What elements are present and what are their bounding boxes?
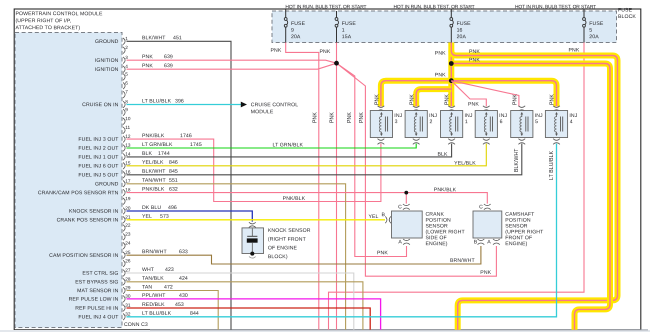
svg-text:20A: 20A xyxy=(589,34,599,40)
svg-text:13: 13 xyxy=(125,143,131,148)
svg-text:GROUND: GROUND xyxy=(95,181,119,187)
svg-text:FUSE: FUSE xyxy=(618,7,633,13)
wire pin31 RED/BLK 453 xyxy=(127,308,371,330)
svg-text:C: C xyxy=(479,204,483,210)
svg-text:INJ: INJ xyxy=(569,113,577,119)
svg-text:451: 451 xyxy=(173,35,182,41)
svg-text:396: 396 xyxy=(175,98,184,104)
wire pin4 PNK 639 xyxy=(127,63,337,69)
svg-text:FUSE: FUSE xyxy=(342,21,357,27)
svg-text:17: 17 xyxy=(125,179,131,184)
svg-text:19: 19 xyxy=(125,196,131,201)
svg-text:(UPPER RIGHT OF I/P,: (UPPER RIGHT OF I/P, xyxy=(15,18,71,24)
fuse F16 20A xyxy=(450,15,471,43)
svg-text:573: 573 xyxy=(160,214,169,220)
svg-text:11: 11 xyxy=(125,125,130,130)
svg-text:FUEL INJ 6 OUT: FUEL INJ 6 OUT xyxy=(78,163,119,169)
svg-text:8: 8 xyxy=(125,99,128,104)
svg-text:14: 14 xyxy=(125,152,131,157)
wire label pin21 YEL 573 xyxy=(142,214,169,220)
svg-text:1: 1 xyxy=(125,36,128,41)
svg-text:22: 22 xyxy=(125,223,131,228)
wire pin12 PNK/BLK 1746 to INJ3 xyxy=(127,139,381,201)
svg-text:KNOCK SENSOR IN: KNOCK SENSOR IN xyxy=(69,209,119,215)
wire crank sensor C drop xyxy=(405,193,407,204)
svg-text:1: 1 xyxy=(465,119,468,125)
fuse F9 20A xyxy=(284,15,305,43)
svg-text:18: 18 xyxy=(125,187,131,192)
wire label pin14 BLK 1744 xyxy=(142,151,170,157)
injector INJ3 xyxy=(370,106,402,145)
FUSE BLOCK label xyxy=(618,7,636,20)
feed tick fuse 16 xyxy=(450,9,452,14)
svg-text:FUSE: FUSE xyxy=(457,21,472,27)
injector INJ1 xyxy=(441,106,473,145)
svg-text:26: 26 xyxy=(125,258,131,263)
wire label pin12 PNK/BLK 1746 xyxy=(142,133,192,139)
svg-text:PNK: PNK xyxy=(377,250,388,256)
svg-text:BRN/WHT: BRN/WHT xyxy=(142,249,167,255)
svg-text:472: 472 xyxy=(164,284,173,290)
svg-text:MODULE: MODULE xyxy=(251,109,274,115)
svg-text:639: 639 xyxy=(164,63,173,69)
bottom module strip xyxy=(0,330,650,332)
wire label pin15 YEL/BLK 846 xyxy=(142,160,178,166)
fuse F1 15A xyxy=(335,11,356,43)
svg-text:16: 16 xyxy=(125,170,131,175)
svg-text:OF ENGINE: OF ENGINE xyxy=(268,245,298,251)
svg-text:YEL: YEL xyxy=(368,214,378,220)
svg-text:RED/BLK: RED/BLK xyxy=(142,302,165,308)
wire label pin27 WHT 423 xyxy=(142,267,174,273)
feed tick fuse 9 xyxy=(285,9,287,14)
svg-text:9: 9 xyxy=(291,28,294,34)
svg-text:PNK: PNK xyxy=(469,57,480,63)
camshaft position sensor xyxy=(473,204,502,245)
svg-text:PNK: PNK xyxy=(435,51,446,57)
svg-text:PNK: PNK xyxy=(374,94,380,105)
svg-text:2: 2 xyxy=(429,119,432,125)
svg-text:551: 551 xyxy=(169,178,178,184)
svg-text:POWERTRAIN CONTROL MODULE: POWERTRAIN CONTROL MODULE xyxy=(15,11,103,17)
wire fuse16 PNK vertical highlighted xyxy=(448,43,454,107)
svg-text:FUSE: FUSE xyxy=(589,21,604,27)
svg-text:BLK/WHT: BLK/WHT xyxy=(514,148,520,172)
svg-text:846: 846 xyxy=(169,160,178,166)
svg-text:20: 20 xyxy=(125,206,131,211)
cam sensor label xyxy=(505,212,544,248)
svg-text:IGNITION: IGNITION xyxy=(95,58,119,64)
svg-text:3: 3 xyxy=(125,55,128,60)
wire label pin32 LT BLU/BLK 844 xyxy=(142,311,199,317)
svg-text:2: 2 xyxy=(125,45,128,50)
svg-text:PNK/BLK: PNK/BLK xyxy=(142,133,165,139)
knock sensor xyxy=(242,222,264,258)
powertrain control module box xyxy=(15,33,122,328)
svg-text:430: 430 xyxy=(179,293,188,299)
svg-text:A: A xyxy=(487,239,491,245)
svg-text:YEL/BLK: YEL/BLK xyxy=(454,161,476,167)
svg-text:PNK/BLK: PNK/BLK xyxy=(142,187,165,193)
svg-text:PNK: PNK xyxy=(359,112,365,123)
svg-text:PPL/WHT: PPL/WHT xyxy=(142,293,166,299)
wire label pin29 TAN 472 xyxy=(142,284,173,290)
wire pin3 PNK 639 xyxy=(127,60,337,63)
svg-text:10: 10 xyxy=(125,116,131,121)
wire label pin3 PNK 639 xyxy=(142,54,173,60)
wire fuse1 PNK to junction xyxy=(336,43,338,64)
feed tick fuse 5 xyxy=(583,9,585,14)
svg-text:PNK: PNK xyxy=(445,94,451,105)
wire label pin13 LT GRN/BLK 1745 xyxy=(142,142,202,148)
svg-text:25: 25 xyxy=(125,250,131,255)
svg-text:32: 32 xyxy=(125,312,131,317)
svg-text:PNK: PNK xyxy=(410,94,416,105)
PCM connector C3 pins xyxy=(123,38,125,320)
svg-text:CRUISE ON IN: CRUISE ON IN xyxy=(82,102,119,108)
svg-text:639: 639 xyxy=(164,54,173,60)
wire PNK bus to INJ3 highlighted xyxy=(381,81,451,107)
svg-text:INJ: INJ xyxy=(429,113,437,119)
svg-text:TAN/BLK: TAN/BLK xyxy=(142,276,164,282)
svg-text:15: 15 xyxy=(125,161,131,166)
svg-text:LT GRN/BLK: LT GRN/BLK xyxy=(142,142,173,148)
injector INJ4 xyxy=(545,106,577,145)
wire PNK feed to INJ5 xyxy=(451,81,519,107)
svg-text:496: 496 xyxy=(168,205,177,211)
svg-text:TAN: TAN xyxy=(142,284,152,290)
svg-text:INJ: INJ xyxy=(394,113,402,119)
svg-text:4: 4 xyxy=(125,64,128,69)
svg-text:PNK: PNK xyxy=(347,112,353,123)
svg-text:(RIGHT FRONT: (RIGHT FRONT xyxy=(268,237,307,243)
wire pin29 TAN 472 xyxy=(127,291,219,330)
wire PNK branch V3 to crank sensor A xyxy=(337,63,407,256)
svg-text:9: 9 xyxy=(125,107,128,112)
svg-text:1746: 1746 xyxy=(180,133,192,139)
svg-text:CRANK/CAM POS SENSOR RTN: CRANK/CAM POS SENSOR RTN xyxy=(38,190,119,196)
svg-text:31: 31 xyxy=(125,303,131,308)
wire fuse9 PNK feed run xyxy=(286,43,319,330)
wire pin21 YEL 573 crank B xyxy=(127,219,386,221)
wire pin27 WHT 423 xyxy=(127,273,354,330)
svg-text:27: 27 xyxy=(125,268,131,273)
svg-text:3: 3 xyxy=(395,119,398,125)
svg-text:LT BLU/BLK: LT BLU/BLK xyxy=(549,150,555,180)
svg-text:BLK: BLK xyxy=(437,152,447,158)
svg-text:BLOCK: BLOCK xyxy=(618,14,636,20)
svg-text:INJ: INJ xyxy=(535,113,543,119)
svg-text:HOT IN RUN, BULB TEST, OR STAR: HOT IN RUN, BULB TEST, OR START xyxy=(285,4,366,10)
wire label pin25 BRN/WHT 633 xyxy=(142,249,188,255)
svg-text:FUEL INJ 4 OUT: FUEL INJ 4 OUT xyxy=(78,314,119,320)
svg-text:FUEL INJ 1 OUT: FUEL INJ 1 OUT xyxy=(78,155,119,161)
svg-text:23: 23 xyxy=(125,232,131,237)
wire pin18 PNK/BLK 632 sensor return xyxy=(127,193,488,204)
svg-text:REF PULSE LOW IN: REF PULSE LOW IN xyxy=(69,297,119,303)
junction dot row18 xyxy=(404,191,408,195)
svg-text:PNK: PNK xyxy=(330,112,336,123)
svg-text:DK BLU: DK BLU xyxy=(142,205,161,211)
crank sensor label xyxy=(425,212,465,248)
wire pin25 BRN/WHT 633 cam B xyxy=(127,246,481,264)
svg-text:632: 632 xyxy=(169,187,178,193)
svg-text:PNK: PNK xyxy=(435,72,446,78)
svg-text:MAT SENSOR IN: MAT SENSOR IN xyxy=(77,288,119,294)
svg-text:PNK: PNK xyxy=(312,112,318,123)
svg-text:PNK: PNK xyxy=(469,49,480,55)
svg-text:844: 844 xyxy=(190,311,199,317)
svg-text:6: 6 xyxy=(125,81,128,86)
junction dot2 on fuse16 vertical xyxy=(449,78,454,83)
wire pin14 BLK 1744 to INJ1 xyxy=(127,144,452,157)
wire PNK bus to INJ2 highlighted xyxy=(416,89,451,106)
wire PNK bus to INJ4 highlighted xyxy=(451,81,556,107)
svg-text:CONN C3: CONN C3 xyxy=(124,322,148,328)
svg-text:423: 423 xyxy=(165,267,174,273)
svg-text:YEL: YEL xyxy=(142,214,152,220)
wire PNK bus B highlighted inner xyxy=(451,64,610,330)
crank position sensor xyxy=(381,204,422,245)
svg-text:20A: 20A xyxy=(291,34,301,40)
knock sensor label xyxy=(268,228,311,260)
injector INJ2 xyxy=(405,106,437,145)
svg-text:20A: 20A xyxy=(457,34,467,40)
svg-text:6: 6 xyxy=(500,119,503,125)
wire pin32 LT BLU/BLK 844 to INJ4 xyxy=(127,144,557,317)
injector INJ5 xyxy=(511,106,543,145)
svg-text:ENGINE): ENGINE) xyxy=(505,241,527,247)
wire label pin17 TAN/WHT 551 xyxy=(142,178,178,184)
svg-text:1: 1 xyxy=(342,28,345,34)
svg-text:PNK: PNK xyxy=(142,63,153,69)
fuse block box xyxy=(272,11,617,43)
svg-text:28: 28 xyxy=(125,277,131,282)
svg-text:7: 7 xyxy=(125,89,128,94)
svg-text:B: B xyxy=(381,212,385,218)
wire label pin1 BLK/WHT 451 xyxy=(142,35,182,41)
wire pin17 TAN/WHT 551 ground xyxy=(127,184,346,330)
wire pin30 PPL/WHT 430 xyxy=(127,299,381,330)
junction dot1 on fuse16 vertical xyxy=(449,61,454,66)
wire fuse5 PNK run xyxy=(329,43,585,330)
wire pin1 BLK/WHT 451 ground run xyxy=(127,41,232,330)
svg-text:HOT IN RUN, BULB TEST, OR STAR: HOT IN RUN, BULB TEST, OR START xyxy=(393,4,474,10)
wire PNK bus A highlighted outer xyxy=(451,51,617,330)
svg-text:424: 424 xyxy=(179,276,188,282)
wire label pin31 RED/BLK 453 xyxy=(142,302,184,308)
wire pin8 LT BLU/BLK 396 cruise xyxy=(127,104,242,106)
wire PNK branch V4 to cam sensor A xyxy=(337,63,497,276)
svg-text:12: 12 xyxy=(125,134,131,139)
svg-text:LT BLU/BLK: LT BLU/BLK xyxy=(142,311,172,317)
wire label pin8 LT BLU/BLK 396 xyxy=(142,98,184,104)
svg-text:29: 29 xyxy=(125,285,131,290)
junction fuse1/ignition dot xyxy=(334,61,339,66)
wire pin20 DK BLU 496 knock xyxy=(127,211,253,222)
wire label pin4 PNK 639 xyxy=(142,63,173,69)
svg-text:4: 4 xyxy=(570,119,573,125)
svg-text:1745: 1745 xyxy=(190,142,202,148)
wire label pin30 PPL/WHT 430 xyxy=(142,293,188,299)
svg-text:PNK: PNK xyxy=(270,48,281,54)
fuse F5 20A xyxy=(583,15,604,43)
svg-text:BRN/WHT: BRN/WHT xyxy=(450,258,475,264)
svg-text:PNK: PNK xyxy=(480,270,491,276)
svg-text:CRANK POS SENSOR IN: CRANK POS SENSOR IN xyxy=(57,217,119,223)
svg-text:B: B xyxy=(474,239,478,245)
svg-text:CRUISE CONTROL: CRUISE CONTROL xyxy=(251,102,298,108)
svg-text:BLK/WHT: BLK/WHT xyxy=(142,169,166,175)
svg-text:PNK: PNK xyxy=(468,102,479,108)
wire label pin20 DK BLU 496 xyxy=(142,205,177,211)
svg-text:FUEL INJ 2 OUT: FUEL INJ 2 OUT xyxy=(78,146,119,152)
cruise control module label xyxy=(251,102,298,115)
wire pin13 LT GRN/BLK 1745 to INJ2 xyxy=(127,144,417,148)
wire pin28 TAN/BLK 424 xyxy=(127,282,363,330)
svg-text:16: 16 xyxy=(457,28,463,34)
pin numbers 1-32 xyxy=(125,36,131,317)
svg-text:INJ: INJ xyxy=(464,113,472,119)
svg-text:FUEL INJ 3 OUT: FUEL INJ 3 OUT xyxy=(78,137,119,143)
svg-text:LT BLU/BLK: LT BLU/BLK xyxy=(142,98,172,104)
wire label pin28 TAN/BLK 424 xyxy=(142,276,188,282)
svg-text:PNK/BLK: PNK/BLK xyxy=(434,187,457,193)
injector INJ6 xyxy=(475,106,507,145)
svg-text:PNK: PNK xyxy=(550,94,556,105)
svg-text:1744: 1744 xyxy=(158,151,170,157)
svg-text:30: 30 xyxy=(125,294,131,299)
svg-text:FUSE: FUSE xyxy=(291,21,306,27)
svg-text:BLK/WHT: BLK/WHT xyxy=(142,35,166,41)
wire pin16 BLK/WHT 845 to INJ5 xyxy=(127,144,522,175)
svg-text:5: 5 xyxy=(589,28,592,34)
svg-text:ATTACHED TO BRACKET): ATTACHED TO BRACKET) xyxy=(15,25,80,31)
svg-text:PNK: PNK xyxy=(512,94,518,105)
svg-text:C: C xyxy=(398,204,402,210)
svg-text:633: 633 xyxy=(179,249,188,255)
svg-text:INJ: INJ xyxy=(499,113,507,119)
svg-text:YEL/BLK: YEL/BLK xyxy=(142,160,164,166)
wire label pin16 BLK/WHT 845 xyxy=(142,169,178,175)
svg-text:TAN/WHT: TAN/WHT xyxy=(142,178,166,184)
svg-text:LT GRN/BLK: LT GRN/BLK xyxy=(272,142,303,148)
svg-text:PNK: PNK xyxy=(319,49,330,55)
svg-text:EST BYPASS SIG: EST BYPASS SIG xyxy=(75,279,118,285)
svg-text:15A: 15A xyxy=(342,34,352,40)
svg-text:PNK/BLK: PNK/BLK xyxy=(283,196,306,202)
svg-text:24: 24 xyxy=(125,241,131,246)
svg-text:REF PULSE HI IN: REF PULSE HI IN xyxy=(75,306,118,312)
svg-text:PNK: PNK xyxy=(142,54,153,60)
wire PNK feed to INJ6 xyxy=(451,81,486,107)
svg-text:ENGINE): ENGINE) xyxy=(425,241,447,247)
wire pin15 YEL/BLK 846 to INJ6 xyxy=(127,144,487,166)
svg-text:KNOCK SENSOR: KNOCK SENSOR xyxy=(268,228,311,234)
svg-text:IGNITION: IGNITION xyxy=(95,67,119,73)
svg-text:BLOCK): BLOCK) xyxy=(268,254,288,260)
cruise arrow xyxy=(241,102,247,108)
svg-text:FUEL INJ 5 OUT: FUEL INJ 5 OUT xyxy=(78,172,119,178)
svg-text:CAM POSITION SENSOR IN: CAM POSITION SENSOR IN xyxy=(49,253,119,259)
svg-text:PNK: PNK xyxy=(568,47,579,53)
svg-text:845: 845 xyxy=(169,169,178,175)
svg-text:A: A xyxy=(398,239,402,245)
svg-text:5: 5 xyxy=(125,72,128,77)
svg-text:453: 453 xyxy=(175,302,184,308)
svg-text:EST CTRL SIG: EST CTRL SIG xyxy=(82,271,118,277)
svg-text:21: 21 xyxy=(125,215,131,220)
svg-text:5: 5 xyxy=(535,119,538,125)
svg-text:WHT: WHT xyxy=(142,267,155,273)
wire label pin18 PNK/BLK 632 xyxy=(142,187,178,193)
PCM title label xyxy=(15,11,103,31)
svg-text:GROUND: GROUND xyxy=(95,39,119,45)
svg-text:BLK: BLK xyxy=(142,151,152,157)
wire PNK branch vertical V2 xyxy=(336,63,338,330)
